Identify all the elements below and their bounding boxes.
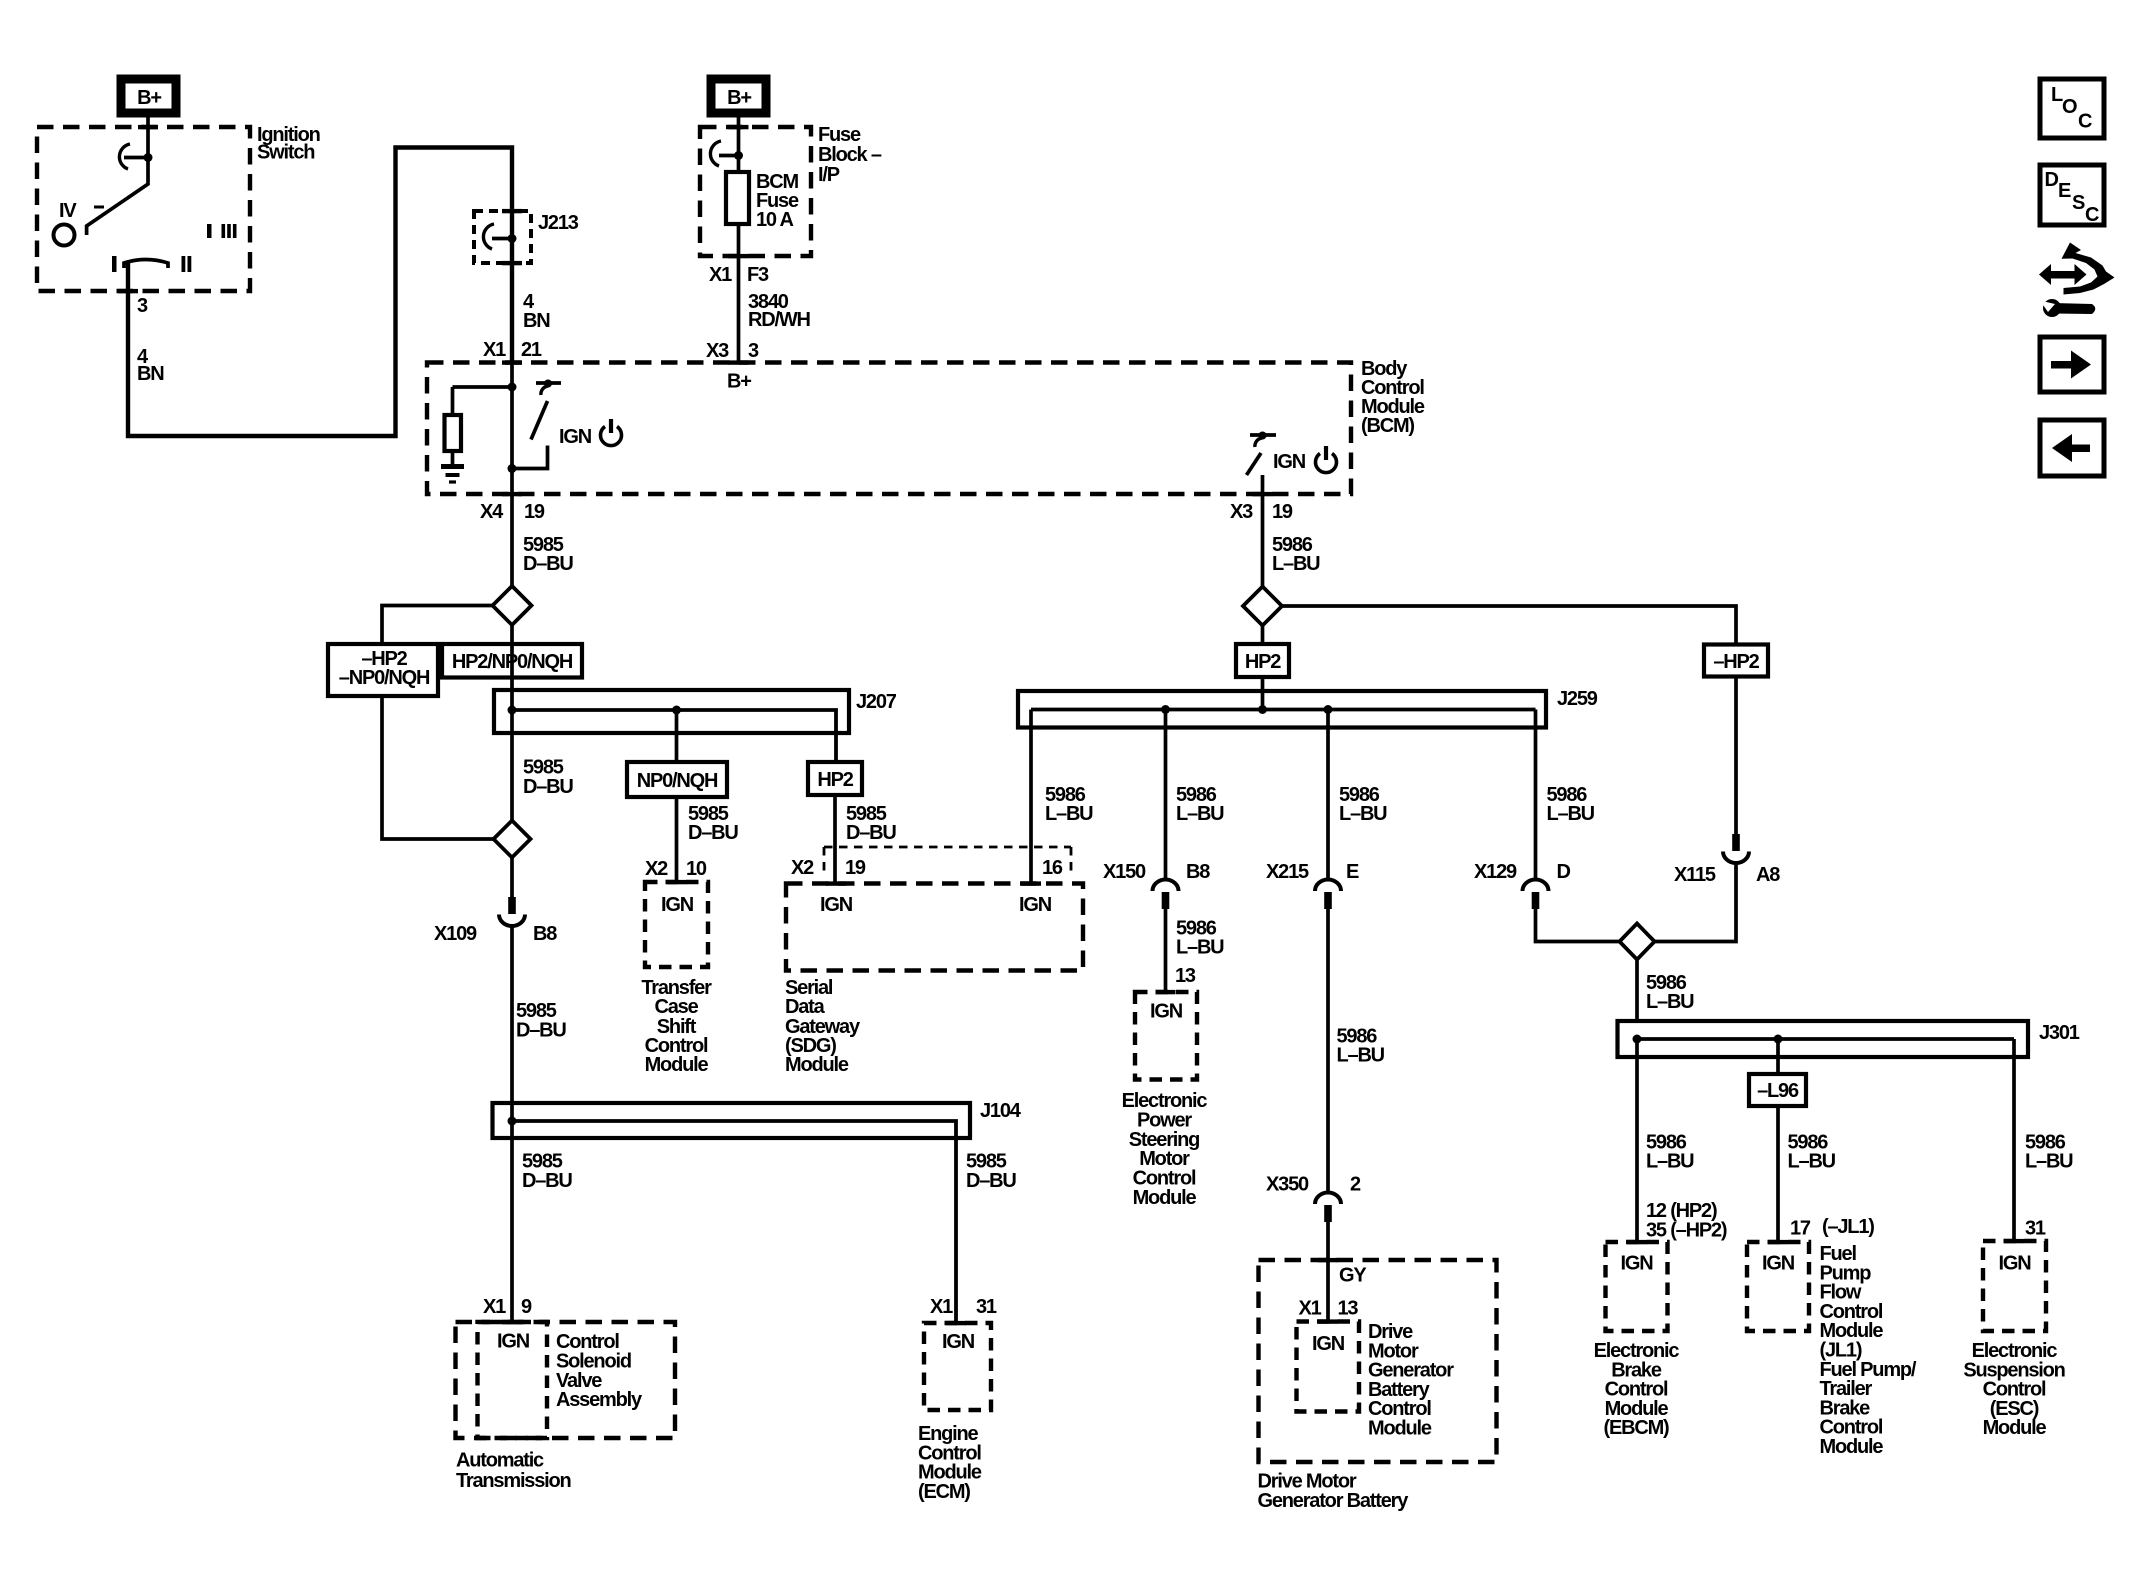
svg-text:3: 3 xyxy=(137,295,148,317)
wire -L96 to fuel pump module xyxy=(1776,1106,1780,1242)
svg-text:IGN: IGN xyxy=(661,894,694,916)
svg-text:(–JL1): (–JL1) xyxy=(1822,1216,1874,1238)
Body Control Module dashed box xyxy=(427,363,1351,495)
fuse block label xyxy=(818,124,882,186)
option box HP2/NP0/NQH xyxy=(442,644,582,678)
node IGN SDG left xyxy=(820,894,853,916)
node B+ inside BCM xyxy=(727,371,751,393)
node IGN ECM xyxy=(942,1331,975,1353)
AT IGN terminal box xyxy=(478,1322,548,1438)
svg-text:E: E xyxy=(1346,861,1359,883)
splice pack J207 xyxy=(494,690,849,762)
svg-text:–NP0/NQH: –NP0/NQH xyxy=(339,667,430,689)
svg-text:Assembly: Assembly xyxy=(556,1389,643,1411)
control solenoid valve label xyxy=(556,1331,643,1411)
wire X129 to diamond xyxy=(1536,909,1620,942)
svg-text:31: 31 xyxy=(976,1296,997,1318)
option box -HP2 -NP0/NQH xyxy=(328,644,438,696)
pin label X1 21 xyxy=(483,339,542,361)
svg-text:C: C xyxy=(2078,111,2092,133)
svg-text:X350: X350 xyxy=(1266,1174,1309,1196)
svg-text:C: C xyxy=(2085,204,2099,226)
svg-text:HP2: HP2 xyxy=(1245,651,1281,673)
wire B+ to ignition switch contact xyxy=(146,117,150,155)
pin label 16 (SDG) xyxy=(1042,857,1063,879)
svg-text:D–BU: D–BU xyxy=(523,776,573,798)
svg-text:IGN: IGN xyxy=(1312,1333,1345,1355)
svg-text:IGN: IGN xyxy=(497,1331,530,1353)
wire X115 to diamond xyxy=(1655,863,1737,942)
wire X215 to X350 xyxy=(1326,909,1330,1193)
wire BCM X4 to diamond splice xyxy=(510,494,514,586)
svg-text:B+: B+ xyxy=(727,371,751,393)
EPS module label xyxy=(1122,1090,1208,1209)
svg-text:10: 10 xyxy=(686,858,707,880)
diagnostic tool icon (arrows and wrench) xyxy=(2039,243,2115,318)
svg-text:S: S xyxy=(2072,192,2085,214)
wire diamond to X109 connector xyxy=(510,858,514,898)
node IGN SDG right xyxy=(1019,894,1052,916)
splice pack J259 xyxy=(1018,691,1546,728)
wire diamond right to -HP2 (far right) xyxy=(1282,606,1736,645)
wire diamond to HP2 box to J259 xyxy=(1261,626,1265,710)
automatic transmission label xyxy=(456,1449,571,1492)
pin label X1 9 xyxy=(483,1296,532,1318)
bottom contact arc xyxy=(124,260,168,269)
serial data gateway module dashed box xyxy=(786,884,1083,971)
BCM internal wire and junctions xyxy=(453,363,517,495)
drive motor generator battery dashed box xyxy=(1259,1260,1497,1462)
power symbol right xyxy=(1316,446,1337,473)
ignition switch dashed box xyxy=(37,127,250,291)
pin label X1 F3 xyxy=(709,264,769,286)
pin label X2 19 (SDG) xyxy=(791,857,866,879)
svg-text:(ECM): (ECM) xyxy=(918,1481,970,1503)
ESC module label xyxy=(1963,1340,2064,1439)
node IGN ESC xyxy=(1999,1253,2032,1275)
svg-text:Transmission: Transmission xyxy=(456,1470,571,1492)
IGN label left xyxy=(559,426,592,448)
wire label 5986 L-BU xyxy=(1045,784,1093,825)
node IGN fuel pump xyxy=(1762,1253,1795,1275)
svg-text:19: 19 xyxy=(845,857,866,879)
J213 label xyxy=(538,212,579,234)
svg-text:L–BU: L–BU xyxy=(1272,553,1320,575)
wire label 5985 D-BU below J104 right xyxy=(966,1151,1016,1193)
svg-text:L–BU: L–BU xyxy=(1176,803,1224,825)
pin label X1 13 xyxy=(1299,1297,1359,1319)
wire diamond to J301 xyxy=(1635,960,1639,1022)
wire label 5986 L-BU xyxy=(1176,784,1224,825)
svg-text:IGN: IGN xyxy=(1019,894,1052,916)
svg-text:D: D xyxy=(2045,169,2059,191)
wire label 3 xyxy=(137,295,148,317)
svg-text:X115: X115 xyxy=(1674,864,1716,886)
svg-text:3: 3 xyxy=(748,340,759,362)
svg-text:13: 13 xyxy=(1175,965,1196,987)
svg-text:Case: Case xyxy=(654,996,698,1018)
svg-text:B8: B8 xyxy=(533,923,557,945)
dash tick marks at box-edge wire crossings xyxy=(118,125,2024,1325)
pin label 17 (-JL1) xyxy=(1790,1216,1874,1240)
splice diamond right xyxy=(1243,587,1282,626)
wire diamond to -HP2 branch xyxy=(382,606,493,645)
wire label 5986 L-BU xyxy=(1176,918,1224,959)
svg-text:X129: X129 xyxy=(1474,861,1517,883)
svg-text:L–BU: L–BU xyxy=(1646,1151,1694,1173)
DMGB control module label xyxy=(1368,1321,1454,1440)
wire label 4 BN (left) xyxy=(137,346,164,385)
svg-text:21: 21 xyxy=(521,339,542,361)
wire label 5985 D-BU xyxy=(846,803,896,844)
transfer case IGN terminal box xyxy=(645,882,708,967)
svg-text:IGN: IGN xyxy=(942,1331,975,1353)
svg-text:X2: X2 xyxy=(791,857,814,879)
position IV marker xyxy=(59,200,104,222)
J207 label xyxy=(856,691,897,713)
wire J301 to -L96 option box xyxy=(1776,1039,1780,1074)
in-line connector X129 D xyxy=(1523,880,1549,909)
ECM label xyxy=(918,1423,982,1503)
svg-text:Module: Module xyxy=(785,1054,849,1076)
BCM left IGN switch xyxy=(512,380,561,469)
svg-text:19: 19 xyxy=(1272,501,1293,523)
svg-text:Module: Module xyxy=(645,1054,709,1076)
wire label 5985 D-BU below J104 left xyxy=(522,1151,572,1193)
EBCM IGN terminal box xyxy=(1606,1242,1668,1331)
EPS IGN terminal box xyxy=(1135,992,1197,1080)
B+ power terminal (ignition switch feed) xyxy=(121,79,176,113)
IGN label right xyxy=(1273,451,1306,473)
svg-text:E: E xyxy=(2058,180,2071,202)
wire label 5985 D-BU below J207 xyxy=(523,757,573,799)
splice J213 dashed box xyxy=(474,211,531,263)
wire J259 to X215 connector xyxy=(1326,710,1330,880)
svg-text:Fuse: Fuse xyxy=(818,124,861,146)
svg-text:X1: X1 xyxy=(483,1296,506,1318)
svg-text:Generator Battery: Generator Battery xyxy=(1258,1490,1410,1512)
in-line connector X350 2 xyxy=(1315,1193,1341,1223)
svg-text:X4: X4 xyxy=(480,501,504,523)
in-line connector X150 B8 xyxy=(1153,880,1179,909)
svg-text:Module: Module xyxy=(1133,1187,1197,1209)
wire J259 to X129 connector xyxy=(1534,710,1538,879)
svg-text:I/P: I/P xyxy=(818,164,840,186)
pin label 31 xyxy=(2025,1218,2046,1240)
splice pack J104 xyxy=(493,1103,971,1323)
svg-text:F3: F3 xyxy=(747,264,769,286)
wire -HP2 box to lower diamond xyxy=(382,696,494,839)
wire label 5985 D-BU xyxy=(523,534,573,575)
J104 label xyxy=(980,1100,1022,1122)
splice diamond left xyxy=(493,586,532,625)
svg-text:D–BU: D–BU xyxy=(688,822,738,844)
DMGB control module IGN terminal box xyxy=(1297,1322,1360,1412)
svg-text:35 (–HP2): 35 (–HP2) xyxy=(1646,1220,1727,1242)
node IGN DMGB xyxy=(1312,1333,1345,1355)
svg-text:Data: Data xyxy=(785,996,826,1018)
in-line connector X109 B8 xyxy=(499,897,525,926)
svg-text:GY: GY xyxy=(1339,1265,1367,1287)
svg-text:X3: X3 xyxy=(706,340,729,362)
svg-text:BN: BN xyxy=(137,363,164,385)
wire label GY xyxy=(1339,1265,1367,1287)
svg-text:31: 31 xyxy=(2025,1218,2046,1240)
svg-text:(BCM): (BCM) xyxy=(1361,415,1414,437)
in-line connector X215 E xyxy=(1315,880,1341,909)
wire ignition switch to BCM X1-21 xyxy=(128,148,512,437)
wire X350 into drive motor battery box xyxy=(1326,1222,1330,1322)
pin label X3 3 xyxy=(706,340,759,362)
svg-text:HP2: HP2 xyxy=(817,769,853,791)
svg-text:J207: J207 xyxy=(856,691,897,713)
wire J301 to EBCM xyxy=(1635,1039,1639,1242)
BCM pull-down resistor xyxy=(445,387,462,464)
ground inside BCM xyxy=(441,467,464,483)
fuse labels xyxy=(756,171,799,231)
pin label X4 19 xyxy=(480,501,545,523)
J213 splice symbol xyxy=(483,224,516,249)
svg-text:L–BU: L–BU xyxy=(2025,1151,2073,1173)
ESC IGN terminal box xyxy=(1983,1241,2046,1331)
svg-text:D–BU: D–BU xyxy=(966,1170,1016,1192)
wire fuse to BCM X3-3 xyxy=(737,224,741,363)
svg-text:L–BU: L–BU xyxy=(1337,1045,1385,1067)
in-line connector X115 A8 xyxy=(1723,834,1749,863)
svg-text:BN: BN xyxy=(523,310,550,332)
svg-text:B+: B+ xyxy=(137,87,161,109)
fuel pump module label xyxy=(1820,1243,1917,1458)
svg-text:D: D xyxy=(1557,861,1571,883)
svg-text:–HP2: –HP2 xyxy=(1713,651,1759,673)
option box -L96 xyxy=(1749,1074,1806,1106)
ignition switch internal contacts and blade xyxy=(87,144,153,235)
B+ power terminal (fuse block feed) xyxy=(711,79,766,113)
node IGN EBCM xyxy=(1621,1253,1654,1275)
node IGN EPS xyxy=(1150,1001,1183,1023)
svg-text:D–BU: D–BU xyxy=(523,553,573,575)
wire BCM X3 to right diamond splice xyxy=(1261,475,1265,587)
svg-text:9: 9 xyxy=(521,1296,532,1318)
wire J207 to NP0/NQH box xyxy=(675,710,679,762)
BCM right IGN switch xyxy=(1247,432,1277,476)
option box HP2 (left) xyxy=(808,762,862,795)
previous page arrow icon xyxy=(2040,420,2104,476)
automatic transmission dashed box xyxy=(456,1322,676,1438)
svg-text:Switch: Switch xyxy=(257,142,314,164)
svg-text:IGN: IGN xyxy=(1273,451,1306,473)
fuse block dashed box xyxy=(700,127,811,256)
pin label 12 (HP2) 35 (-HP2) xyxy=(1646,1200,1727,1242)
pin label X129 D xyxy=(1474,861,1571,883)
wire label 5986 L-BU xyxy=(1788,1131,1836,1172)
pin label X3 19 xyxy=(1230,501,1293,523)
BCM fuse 10A element xyxy=(726,172,749,224)
pin label X1 31 xyxy=(930,1296,997,1318)
wire label 5986 L-BU xyxy=(1339,784,1387,825)
svg-text:19: 19 xyxy=(524,501,545,523)
svg-text:13: 13 xyxy=(1338,1297,1359,1319)
wire label 5985 D-BU xyxy=(516,1000,566,1042)
EBCM label xyxy=(1594,1340,1680,1439)
wire HP2 box to SDG pin 19 xyxy=(833,795,837,884)
svg-text:IGN: IGN xyxy=(559,426,592,448)
wire diamond through option box to J207 xyxy=(510,625,514,821)
svg-text:16: 16 xyxy=(1042,857,1063,879)
svg-text:D–BU: D–BU xyxy=(516,1020,566,1042)
svg-text:J104: J104 xyxy=(980,1100,1022,1122)
LOC icon box xyxy=(2040,79,2104,138)
svg-text:IGN: IGN xyxy=(1621,1253,1654,1275)
wire label 5986 L-BU xyxy=(1547,784,1595,825)
fuel pump IGN terminal box xyxy=(1747,1242,1809,1331)
svg-text:X215: X215 xyxy=(1266,861,1309,883)
wire J259 to X150 connector xyxy=(1164,710,1168,880)
pin label X109 B8 xyxy=(434,923,557,945)
splice diamond lower left xyxy=(494,821,531,858)
option box NP0/NQH xyxy=(627,762,727,797)
pin label X115 A8 xyxy=(1674,864,1780,886)
svg-text:Automatic: Automatic xyxy=(456,1449,544,1471)
svg-text:Module: Module xyxy=(1983,1417,2047,1439)
wire label 5986 L-BU xyxy=(1646,972,1694,1013)
splice pack J301 xyxy=(1618,1021,2029,1057)
wire J301 to ESC xyxy=(2012,1039,2016,1241)
svg-text:X1: X1 xyxy=(1299,1297,1322,1319)
wire X150 to EPS module xyxy=(1164,909,1168,992)
svg-text:D–BU: D–BU xyxy=(522,1170,572,1192)
connector X2 thin dashed line (SDG) xyxy=(824,847,1071,877)
svg-text:J301: J301 xyxy=(2039,1022,2080,1044)
ignition switch pivot xyxy=(54,225,75,246)
svg-text:X1: X1 xyxy=(483,339,506,361)
svg-text:O: O xyxy=(2062,96,2078,118)
wire label 4 BN (at BCM X1) xyxy=(523,291,550,332)
fuse feed splice contact xyxy=(710,141,743,166)
svg-text:IGN: IGN xyxy=(1150,1001,1183,1023)
svg-text:IGN: IGN xyxy=(820,894,853,916)
BCM label xyxy=(1361,358,1425,437)
svg-text:RD/WH: RD/WH xyxy=(748,309,811,331)
svg-text:Block –: Block – xyxy=(818,144,882,166)
wire X109 to J104 and AT xyxy=(510,926,514,1322)
svg-text:L–BU: L–BU xyxy=(1547,803,1595,825)
svg-text:X2: X2 xyxy=(645,858,668,880)
svg-text:X150: X150 xyxy=(1103,861,1146,883)
svg-text:IV: IV xyxy=(59,200,77,222)
pin label 13 (EPS) xyxy=(1175,965,1196,987)
svg-text:X109: X109 xyxy=(434,923,477,945)
svg-text:17: 17 xyxy=(1790,1218,1811,1240)
svg-text:D–BU: D–BU xyxy=(846,822,896,844)
node IGN AT xyxy=(497,1331,530,1353)
svg-text:B+: B+ xyxy=(727,87,751,109)
pin label X350 2 xyxy=(1266,1174,1361,1196)
SDG module label xyxy=(785,977,861,1076)
svg-text:Module: Module xyxy=(1368,1418,1432,1440)
svg-text:J259: J259 xyxy=(1557,688,1598,710)
ECM IGN terminal box xyxy=(924,1323,991,1410)
svg-text:L–BU: L–BU xyxy=(1788,1151,1836,1173)
svg-text:IGN: IGN xyxy=(1762,1253,1795,1275)
svg-text:–L96: –L96 xyxy=(1757,1080,1799,1102)
wire label 5986 L-BU xyxy=(1272,534,1320,575)
ignition switch label xyxy=(257,124,320,164)
J301 label xyxy=(2039,1022,2080,1044)
wire label 3840 RD/WH xyxy=(748,291,811,331)
wire label 5986 L-BU xyxy=(1337,1026,1385,1067)
J259 label xyxy=(1557,688,1598,710)
wire label 5986 L-BU xyxy=(1646,1131,1694,1172)
svg-text:(EBCM): (EBCM) xyxy=(1603,1417,1669,1439)
next page arrow icon xyxy=(2040,337,2104,392)
svg-text:2: 2 xyxy=(1350,1174,1361,1196)
svg-text:NP0/NQH: NP0/NQH xyxy=(637,770,718,792)
splice diamond far right xyxy=(1620,924,1655,960)
pin label X150 B8 xyxy=(1103,861,1210,883)
transfer case module label xyxy=(641,977,712,1076)
wire B+ into fuse block xyxy=(737,117,741,172)
svg-text:L–BU: L–BU xyxy=(1176,937,1224,959)
pin label X215 E xyxy=(1266,861,1359,883)
pin label X2 10 xyxy=(645,858,707,880)
node IGN transfer case xyxy=(661,894,694,916)
svg-text:J213: J213 xyxy=(538,212,579,234)
svg-text:L–BU: L–BU xyxy=(1045,803,1093,825)
DESC icon box xyxy=(2040,165,2104,226)
drive motor generator battery label xyxy=(1258,1471,1410,1513)
svg-text:10 A: 10 A xyxy=(756,209,793,231)
wire label 5986 L-BU xyxy=(2025,1131,2073,1172)
wire NP0/NQH to transfer case xyxy=(675,797,679,882)
svg-text:X1: X1 xyxy=(709,264,732,286)
svg-text:IGN: IGN xyxy=(1999,1253,2032,1275)
svg-text:X1: X1 xyxy=(930,1296,953,1318)
svg-text:Module: Module xyxy=(1820,1436,1884,1458)
wire label 5985 D-BU xyxy=(688,803,738,844)
svg-text:A8: A8 xyxy=(1756,864,1780,886)
power symbol left xyxy=(601,419,622,446)
svg-text:L–BU: L–BU xyxy=(1646,991,1694,1013)
svg-text:X3: X3 xyxy=(1230,501,1253,523)
option box -HP2 (right) xyxy=(1704,645,1768,677)
position I III markers xyxy=(207,224,237,238)
wire J259 to SDG pin 16 xyxy=(1029,710,1033,885)
wire -HP2 to X115 connector xyxy=(1734,677,1738,835)
position I II markers at bottom contact xyxy=(112,256,191,272)
svg-text:B8: B8 xyxy=(1186,861,1210,883)
svg-text:L–BU: L–BU xyxy=(1339,803,1387,825)
option box HP2 (right) xyxy=(1236,644,1289,677)
